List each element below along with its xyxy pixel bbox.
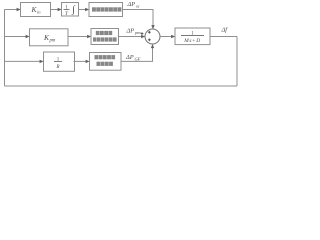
wire row3 a [74, 60, 87, 62]
svg-text:ΔP: ΔP [127, 1, 136, 8]
block thermal unit (CJK label blobs, 2 lines) [90, 53, 122, 71]
wire row3 to summer (right then up) [121, 47, 153, 61]
wire feedback left bus [4, 10, 6, 87]
svg-text:sc: sc [136, 4, 140, 9]
wire row2 a [68, 36, 88, 38]
block pumped-storage plant (CJK label blobs, 2 lines) [91, 29, 119, 45]
wire feedback bottom [5, 85, 238, 87]
wire df output to feedback [210, 36, 237, 38]
wire row1 b [79, 9, 87, 11]
wire row1 to summer (right then down) [123, 10, 154, 27]
wire row2 input [5, 36, 27, 38]
wire row2 to summer [119, 36, 143, 38]
svg-text:Ms+D: Ms+D [183, 38, 201, 44]
node label dP_GF [125, 54, 141, 62]
block 1/R droop [44, 52, 75, 71]
svg-text:ΔP: ΔP [125, 54, 134, 61]
block integrator 1/T [62, 3, 79, 17]
svg-text:GF: GF [135, 56, 141, 61]
wire row3 input [5, 60, 41, 62]
svg-text:ΔP: ΔP [126, 27, 135, 34]
wire row1 a [51, 9, 59, 11]
node label dP_pm [126, 27, 142, 35]
node label dP_sc [127, 1, 140, 9]
wire row1 input [5, 9, 18, 11]
svg-text:pm: pm [134, 30, 141, 35]
block 1/(Ms+D) [175, 28, 210, 45]
wire feedback right [236, 37, 238, 87]
svg-text:pm: pm [49, 38, 56, 43]
block K_pm [30, 29, 69, 46]
block K_in [21, 3, 51, 17]
summing junction [141, 29, 160, 44]
wire summer output [160, 36, 172, 38]
block secondary control plant (CJK label blobs) [89, 3, 123, 17]
